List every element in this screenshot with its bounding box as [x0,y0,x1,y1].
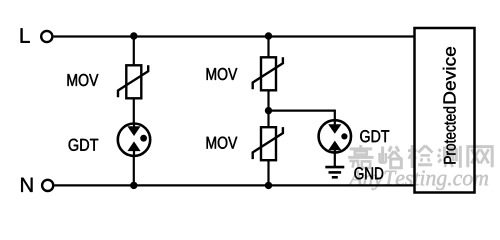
label MOV middle bottom [207,137,238,149]
watermark 嘉峪检测网 (drawn as simplified gray glyph strokes) [348,145,492,168]
wire middle branch vertical [267,37,269,186]
junction middle bottom [265,182,272,189]
ground [325,167,344,177]
label GDT left [69,139,99,151]
label MOV left [68,74,99,86]
varistor MOV left [118,65,148,98]
junction left top [130,32,137,39]
watermark char 峪 [380,146,402,168]
junction middle mid [265,107,272,114]
wire N line [55,184,415,186]
label GDT right [360,130,389,142]
varistor MOV middle bottom [253,127,283,160]
wire left branch vertical [133,37,135,186]
watermark char 检 [408,145,432,168]
label GND [354,167,383,179]
label N [21,178,32,192]
protected device box [415,28,475,193]
GDT left [118,123,150,157]
label Protected Device word Protected [443,107,455,164]
wire GDT right to ground [334,152,336,167]
label Protected Device word Device [443,47,456,103]
watermark char 测 [438,146,460,168]
junction middle top [265,32,272,39]
watermark char 嘉 [348,145,374,168]
terminal N circle [42,180,53,191]
GDT right [319,119,351,153]
terminal L circle [41,31,52,42]
junction left bottom [130,182,137,189]
varistor MOV middle top [253,57,283,90]
watermark AnyTesting.com [348,171,488,190]
label MOV middle top [207,68,238,80]
watermark char 网 [468,147,492,168]
label L [21,28,30,42]
wire junction to right GDT [269,111,335,121]
wire L line [54,35,415,37]
